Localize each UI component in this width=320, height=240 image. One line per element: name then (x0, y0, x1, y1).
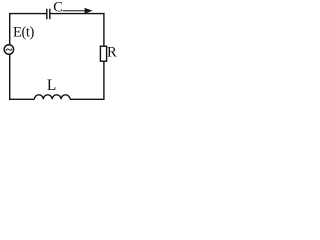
svg-text:R: R (107, 45, 117, 61)
svg-text:E(t): E(t) (13, 24, 35, 40)
svg-text:L: L (47, 77, 56, 94)
svg-text:C: C (53, 0, 63, 15)
